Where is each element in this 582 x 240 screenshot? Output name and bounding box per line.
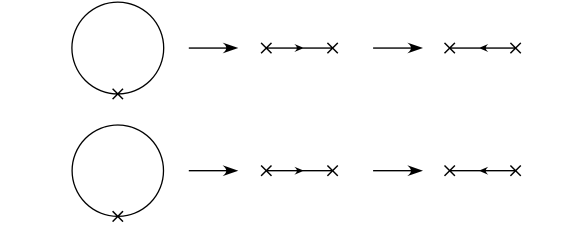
mid arrowhead left row2 second <box>480 168 487 174</box>
propagator line row2 first <box>266 170 332 172</box>
mid arrowhead right row2 first <box>296 168 303 174</box>
arrow head row2 right <box>409 166 422 175</box>
arrow head row1 right <box>409 44 422 53</box>
propagator line row1 first <box>266 47 332 49</box>
cross left end row2 second <box>445 166 455 176</box>
cross left end row2 first <box>261 166 271 176</box>
propagator line row2 second <box>450 170 516 172</box>
mid arrowhead left row1 second <box>480 45 487 51</box>
cross left end row1 second <box>445 43 455 53</box>
cross insertion on loop row2 <box>113 211 123 221</box>
arrow shaft row2 right <box>373 170 415 172</box>
arrow shaft row1 left <box>189 47 231 49</box>
loop circle row1 <box>72 2 164 94</box>
cross insertion on loop row1 <box>113 89 123 99</box>
cross right end row1 second <box>510 43 520 53</box>
cross right end row1 first <box>327 43 337 53</box>
loop circle row2 <box>72 125 163 216</box>
arrow shaft row2 left <box>189 170 231 172</box>
cross right end row2 second <box>510 166 520 176</box>
mid arrowhead right row1 first <box>296 45 303 51</box>
arrow shaft row1 right <box>373 47 415 49</box>
arrow head row1 left <box>224 44 237 53</box>
cross right end row2 first <box>327 166 337 176</box>
propagator line row1 second <box>450 47 516 49</box>
cross left end row1 first <box>261 43 271 53</box>
arrow head row2 left <box>224 166 237 175</box>
